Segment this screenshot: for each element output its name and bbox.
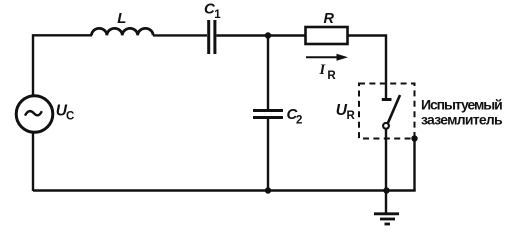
wire: C1 to resistor R bbox=[217, 34, 307, 36]
text: Ispytuemyj zazemlitel bbox=[421, 97, 503, 128]
wire: inductor to C1 bbox=[153, 34, 207, 36]
wire: resistor to right corner and down bbox=[348, 36, 387, 100]
node: junction top of C2 branch bbox=[265, 32, 271, 38]
ground bbox=[374, 214, 399, 224]
node: box corner junction bbox=[411, 135, 417, 141]
capacitor C2 bbox=[253, 111, 283, 118]
wire: C2 branch lower bbox=[267, 118, 269, 191]
label UC bbox=[56, 103, 75, 123]
AC source UC bbox=[16, 96, 53, 133]
switch: hinge circle bbox=[383, 123, 389, 129]
node: ground junction bbox=[383, 187, 389, 193]
svg-text:R: R bbox=[327, 70, 336, 82]
label IR bbox=[319, 62, 337, 82]
wire: top-left from source to inductor bbox=[33, 35, 92, 96]
node: junction C2 to bottom rail bbox=[265, 187, 271, 193]
svg-text:R: R bbox=[347, 110, 356, 122]
svg-text:I: I bbox=[319, 62, 327, 78]
svg-text:1: 1 bbox=[214, 9, 221, 21]
svg-text:L: L bbox=[117, 10, 126, 27]
label UR bbox=[336, 102, 356, 122]
label C1 bbox=[204, 1, 221, 21]
arrow IR current direction bbox=[306, 54, 348, 61]
svg-text:R: R bbox=[324, 11, 335, 27]
wire: source bottom to bottom rail bbox=[32, 132, 34, 192]
label C2 bbox=[287, 106, 303, 126]
wire: switch to ground bbox=[385, 129, 387, 213]
svg-text:C: C bbox=[66, 110, 74, 122]
svg-text:2: 2 bbox=[296, 115, 302, 127]
switch: fixed contact bar bbox=[382, 98, 392, 101]
wire: C2 branch upper bbox=[267, 36, 269, 111]
svg-text:Испытуемый: Испытуемый bbox=[421, 97, 502, 113]
inductor L bbox=[92, 28, 154, 35]
tested earth electrode dashed box bbox=[359, 84, 415, 139]
svg-text:заземлитель: заземлитель bbox=[421, 111, 503, 127]
wire: bottom rail bbox=[33, 189, 416, 191]
wire: box corner down to bottom rail bbox=[413, 139, 415, 191]
resistor R bbox=[306, 27, 348, 44]
capacitor C1 bbox=[209, 20, 215, 54]
switch: blade bbox=[388, 95, 400, 123]
